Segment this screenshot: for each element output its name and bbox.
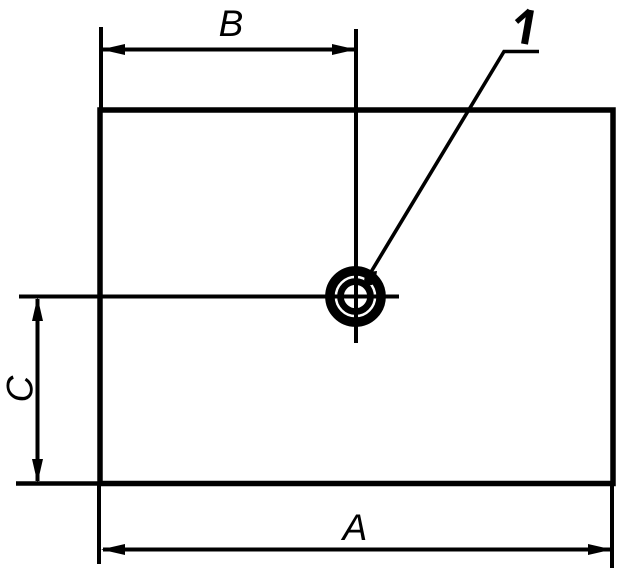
- dimension line B: [103, 48, 354, 52]
- label 1 stem: [525, 10, 531, 44]
- arrowhead B right: [332, 44, 356, 55]
- svg-text:A: A: [341, 507, 368, 548]
- arrowhead A right: [588, 544, 612, 555]
- arrowhead B left: [101, 44, 125, 55]
- dimension line C: [36, 299, 40, 481]
- bottom edge extension left: [16, 481, 100, 486]
- svg-text:B: B: [219, 3, 244, 44]
- hole outer circle: [330, 271, 381, 322]
- leader arrow blob: [363, 271, 377, 287]
- arrowhead A left: [101, 544, 125, 555]
- extension line left top: [99, 27, 103, 110]
- arrowhead C bottom: [32, 459, 43, 483]
- leader line for callout 1: [371, 52, 539, 273]
- arrowhead C top: [32, 297, 43, 321]
- hole inner circle: [341, 282, 371, 312]
- extension line left bottom: [97, 484, 101, 564]
- horizontal centerline: [19, 295, 399, 299]
- label 1 flag: [517, 11, 530, 23]
- dimension line A: [103, 548, 610, 552]
- vertical centerline: [354, 29, 358, 343]
- svg-text:C: C: [0, 375, 41, 402]
- extension line right bottom: [610, 484, 614, 568]
- plate outline (rectangle): [100, 110, 613, 484]
